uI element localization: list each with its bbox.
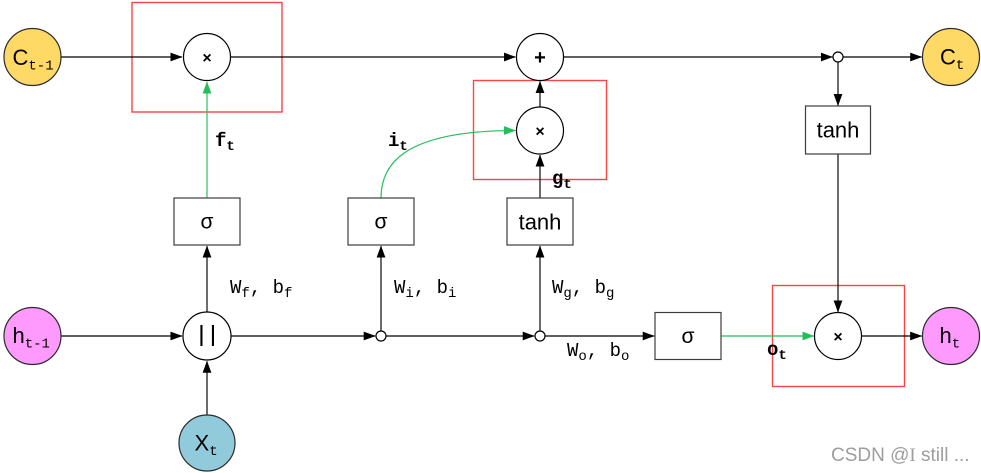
svg-text:×: ×: [833, 329, 842, 346]
svg-text:σ: σ: [375, 211, 388, 234]
svg-text:tanh: tanh: [817, 118, 860, 143]
svg-text:CSDN @I still ...: CSDN @I still ...: [831, 445, 970, 466]
svg-text:Wf, bf: Wf, bf: [230, 277, 292, 302]
svg-text:×: ×: [535, 123, 544, 140]
svg-text:it: it: [388, 130, 408, 155]
svg-text:ot: ot: [767, 339, 787, 364]
svg-text:Wg, bg: Wg, bg: [552, 277, 614, 302]
svg-text:σ: σ: [201, 211, 214, 234]
svg-text:+: +: [534, 47, 546, 69]
svg-text:Wo, bo: Wo, bo: [567, 340, 629, 365]
svg-text:×: ×: [202, 50, 211, 67]
svg-text:gt: gt: [552, 168, 572, 193]
svg-text:σ: σ: [682, 325, 695, 348]
svg-text:tanh: tanh: [519, 210, 562, 235]
svg-text:ft: ft: [215, 130, 235, 155]
svg-text:Wi, bi: Wi, bi: [394, 277, 456, 302]
